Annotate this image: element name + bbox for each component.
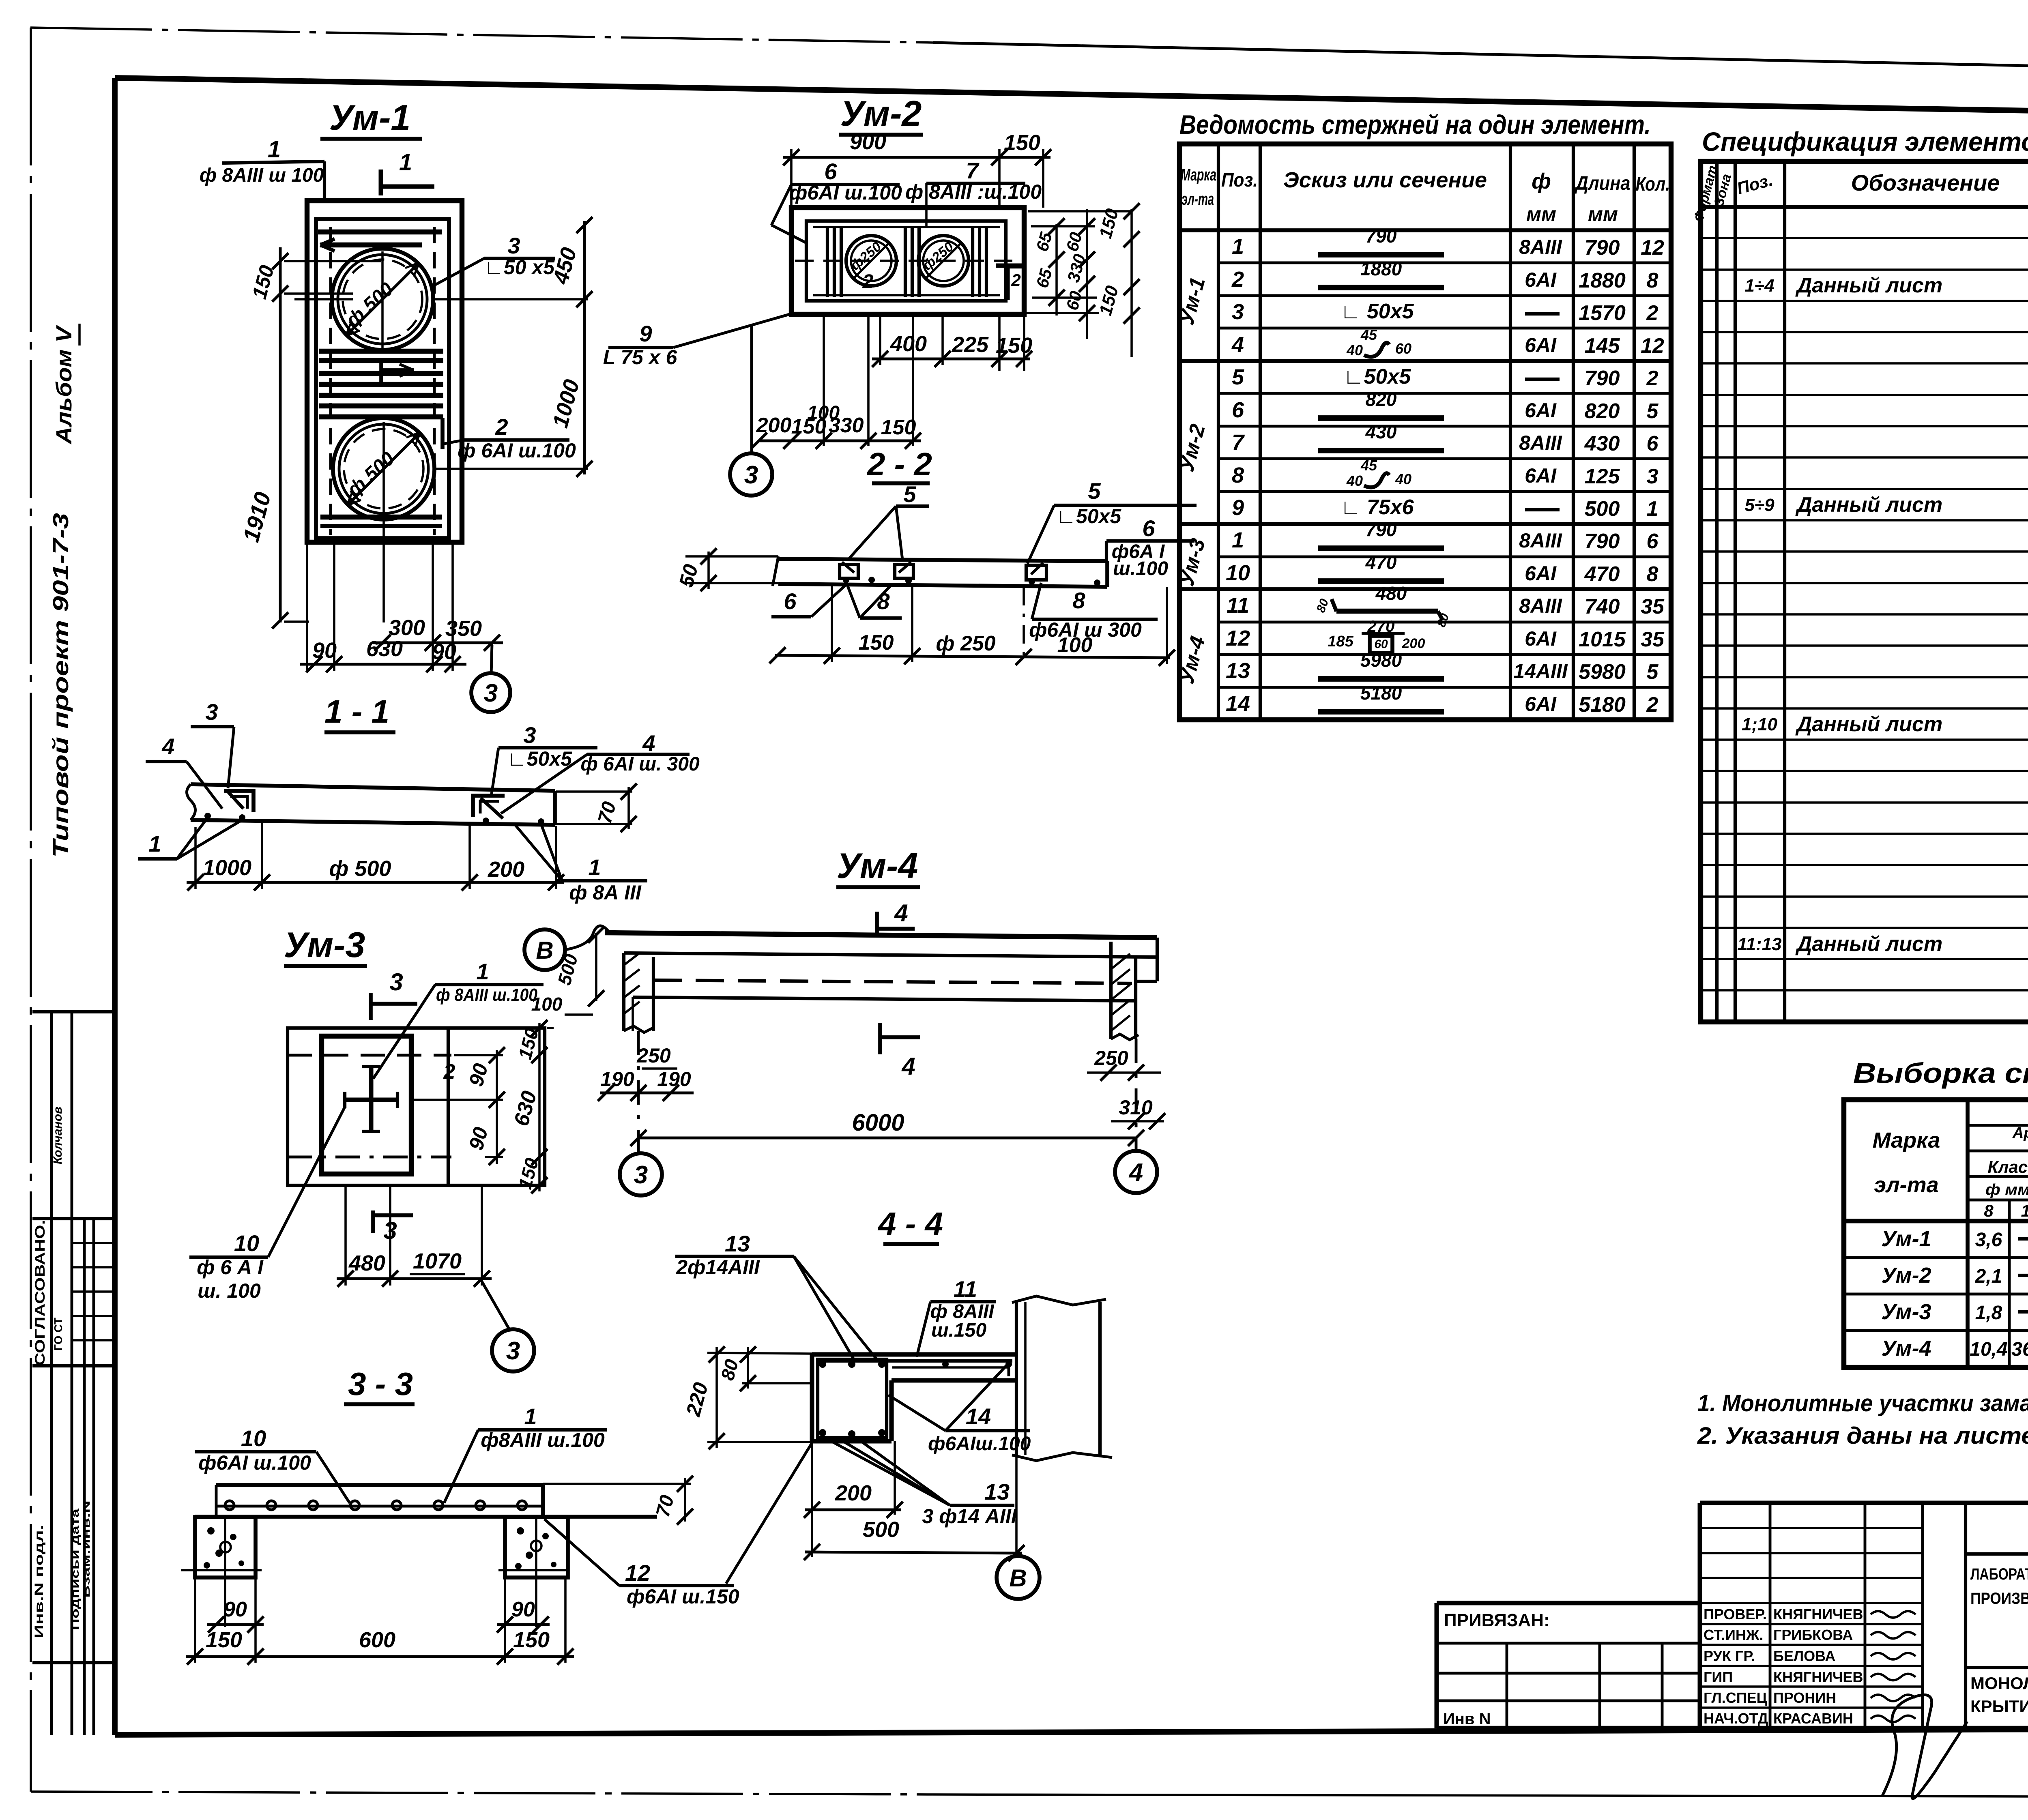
svg-text:12: 12 bbox=[1641, 236, 1664, 260]
svg-text:1;10: 1;10 bbox=[1742, 715, 1778, 734]
svg-text:900: 900 bbox=[850, 130, 886, 154]
svg-text:Данный лист: Данный лист bbox=[1795, 274, 1942, 297]
svg-text:Марка: Марка bbox=[1873, 1128, 1940, 1153]
svg-text:ГРИБКОВА: ГРИБКОВА bbox=[1773, 1627, 1853, 1643]
svg-text:1. Монолитные участки замаркир: 1. Монолитные участки замаркированы на л… bbox=[1697, 1390, 2028, 1417]
svg-text:90: 90 bbox=[511, 1598, 535, 1621]
svg-text:11: 11 bbox=[1227, 593, 1249, 618]
svg-text:820: 820 bbox=[1366, 389, 1397, 410]
label 13 2ф14АIII bbox=[675, 1231, 876, 1359]
svg-text:5980: 5980 bbox=[1579, 660, 1626, 684]
axis balloon 3 (below Ум-2) bbox=[730, 324, 772, 496]
svg-text:6: 6 bbox=[824, 159, 837, 184]
svg-text:45: 45 bbox=[1360, 457, 1377, 474]
svg-text:Обозначение: Обозначение bbox=[1851, 170, 2000, 195]
svg-text:2: 2 bbox=[1646, 301, 1658, 325]
leader from 12 label to stirrup corner bbox=[726, 1439, 814, 1584]
table Спецификация headers bbox=[1691, 164, 2028, 223]
svg-text:ф мм: ф мм bbox=[1985, 1181, 2028, 1198]
svg-text:Ум-2: Ум-2 bbox=[840, 93, 922, 133]
label 2 ф 6АI ш.100 bbox=[443, 414, 576, 462]
label 7 ф 8АIII ш.100 bbox=[905, 158, 1042, 227]
svg-text:100: 100 bbox=[531, 994, 563, 1015]
svg-text:ЛАБОРАТОРНАЯ ДЛЯ ОБЕЗЗАРАЖИВАН: ЛАБОРАТОРНАЯ ДЛЯ ОБЕЗЗАРАЖИВАНИЯ ПИТЬЕВЫ… bbox=[1970, 1565, 2028, 1583]
slab plan outline Ум-2 bbox=[791, 208, 1024, 314]
svg-text:8АIII: 8АIII bbox=[1519, 431, 1562, 454]
section 2-2 title bbox=[866, 446, 932, 483]
svg-text:L 75 х 6: L 75 х 6 bbox=[603, 346, 678, 369]
svg-text:8АIII: 8АIII bbox=[1519, 236, 1562, 258]
svg-text:Данный лист: Данный лист bbox=[1795, 932, 1942, 956]
circle center axis lines bbox=[294, 251, 588, 622]
label 12 ф6АI ш.150 bbox=[544, 1519, 739, 1608]
svg-text:190: 190 bbox=[657, 1068, 691, 1090]
svg-text:эл-та: эл-та bbox=[1874, 1173, 1938, 1197]
svg-text:1: 1 bbox=[1647, 497, 1658, 521]
svg-text:ф6АI ш.100: ф6АI ш.100 bbox=[198, 1451, 311, 1474]
svg-text:5: 5 bbox=[903, 481, 916, 507]
adjacent wall in 4-4 bbox=[1012, 1296, 1112, 1461]
svg-text:В: В bbox=[536, 937, 553, 964]
slab section 2-2 body bbox=[709, 556, 1107, 587]
dimension 400 225 150 (below Ум-2) bbox=[872, 314, 1032, 371]
svg-text:600: 600 bbox=[359, 1628, 395, 1652]
svg-text:2ф14АIII: 2ф14АIII bbox=[676, 1256, 760, 1279]
axis balloon 3 (below Ум-3) bbox=[482, 1281, 534, 1371]
svg-text:200: 200 bbox=[835, 1481, 872, 1505]
svg-text:630: 630 bbox=[366, 637, 403, 661]
svg-text:470: 470 bbox=[1584, 562, 1620, 586]
svg-text:ПРОНИН: ПРОНИН bbox=[1773, 1689, 1836, 1706]
dimension 150 (left top) bbox=[248, 247, 381, 302]
svg-text:3: 3 bbox=[1232, 300, 1244, 324]
angle clip right in 2-2 bbox=[1026, 563, 1100, 586]
svg-text:2: 2 bbox=[1231, 267, 1244, 292]
label 6 ф6АI ш.100 (far right) bbox=[1106, 515, 1194, 579]
view Ум-3 title bbox=[284, 925, 367, 966]
dimension 70 (right of 3-3) bbox=[543, 1476, 693, 1525]
svg-text:Инв.N подл.: Инв.N подл. bbox=[32, 1525, 46, 1638]
label 5 (left) bbox=[848, 481, 929, 560]
centerline crosses below walls bbox=[181, 1519, 568, 1627]
svg-text:5980: 5980 bbox=[1360, 650, 1402, 671]
svg-text:2. Указания даны на листе К: 2. Указания даны на листе КЖ-17. bbox=[1697, 1423, 2028, 1449]
svg-text:3 ф14 АIII: 3 ф14 АIII bbox=[922, 1505, 1017, 1528]
svg-text:100: 100 bbox=[1057, 633, 1093, 657]
label 1 ф 8АIII (below right) bbox=[515, 824, 647, 904]
svg-text:250: 250 bbox=[1094, 1047, 1128, 1069]
svg-text:100: 100 bbox=[807, 402, 840, 424]
svg-text:4: 4 bbox=[161, 734, 174, 759]
svg-text:13: 13 bbox=[984, 1479, 1010, 1505]
svg-text:9: 9 bbox=[1232, 496, 1244, 520]
label 4 (left) bbox=[146, 734, 222, 809]
svg-text:2: 2 bbox=[862, 271, 874, 292]
dimension 200 500 (below 4-4) bbox=[804, 1441, 1025, 1561]
svg-text:8АIII: 8АIII bbox=[1519, 595, 1562, 617]
svg-text:1: 1 bbox=[148, 831, 161, 856]
svg-text:ПРОИЗВОДИТЕЛЬНОСТЬЮ 12,5КГ ТОВ: ПРОИЗВОДИТЕЛЬНОСТЬЮ 12,5КГ ТОВАРНОГО ХЛО… bbox=[1970, 1590, 2028, 1608]
table Ведомость rows content bbox=[1226, 225, 1665, 717]
svg-text:310: 310 bbox=[1119, 1096, 1153, 1119]
svg-text:6АI: 6АI bbox=[1525, 268, 1557, 291]
svg-text:Колчанов: Колчанов bbox=[51, 1107, 64, 1164]
label 1 ф 8АIII ш 100 (left) bbox=[200, 136, 324, 198]
svg-text:КРЫТИЙ Ум-1 ÷ Ум4: КРЫТИЙ Ум-1 ÷ Ум4 bbox=[1970, 1696, 2028, 1716]
angle clip pair left in 2-2 bbox=[840, 562, 913, 584]
dimensions 150 630 150 (outer chain) bbox=[509, 1020, 554, 1193]
svg-text:2: 2 bbox=[1646, 693, 1658, 717]
hole circle ф250 (left) bbox=[846, 236, 896, 292]
label 8 ф6АI ш 300 (below right) bbox=[1029, 583, 1158, 641]
svg-text:740: 740 bbox=[1585, 595, 1620, 618]
svg-text:1: 1 bbox=[476, 959, 489, 984]
svg-text:СОГЛАСОВАНО.: СОГЛАСОВАНО. bbox=[32, 1220, 48, 1366]
svg-text:2 - 2: 2 - 2 bbox=[866, 446, 932, 482]
svg-text:480: 480 bbox=[348, 1251, 385, 1275]
svg-text:9: 9 bbox=[639, 321, 652, 346]
rebar top bars bbox=[318, 232, 442, 251]
svg-text:ф 6АI ш. 300: ф 6АI ш. 300 bbox=[580, 753, 700, 775]
view Ум-1 title bbox=[320, 97, 422, 139]
svg-text:6000: 6000 bbox=[852, 1110, 904, 1136]
svg-text:13: 13 bbox=[725, 1231, 750, 1256]
svg-text:Ум-1: Ум-1 bbox=[1881, 1227, 1931, 1251]
axis balloon 3 (below Ум-1) bbox=[471, 645, 510, 712]
svg-text:1,8: 1,8 bbox=[1975, 1302, 2002, 1324]
svg-text:8АIII: 8АIII bbox=[1519, 529, 1562, 552]
svg-text:8: 8 bbox=[1072, 588, 1085, 613]
label 1 ф8АIII ш.100 (Ум-3) bbox=[373, 959, 544, 1079]
svg-text:790: 790 bbox=[1585, 367, 1620, 390]
slab plan outline Ум-1 bbox=[307, 201, 462, 542]
svg-text:∟ 75х6: ∟ 75х6 bbox=[1340, 496, 1414, 519]
svg-text:40: 40 bbox=[1346, 342, 1363, 358]
svg-text:ф 6АI ш.100: ф 6АI ш.100 bbox=[458, 439, 576, 462]
rebar bottom bars bbox=[320, 517, 442, 526]
svg-text:125: 125 bbox=[1585, 465, 1620, 488]
angle clip left 1-1 bbox=[204, 791, 253, 821]
svg-text:эл-та: эл-та bbox=[1182, 189, 1214, 208]
svg-text:6АI: 6АI bbox=[1525, 334, 1557, 356]
svg-text:150: 150 bbox=[206, 1628, 242, 1652]
svg-text:1570: 1570 bbox=[1579, 301, 1626, 325]
svg-text:150: 150 bbox=[996, 333, 1032, 358]
svg-text:8: 8 bbox=[1984, 1201, 1994, 1220]
svg-text:3 - 3: 3 - 3 bbox=[348, 1366, 413, 1402]
svg-text:Класс АIII: Класс АIII bbox=[1987, 1157, 2028, 1176]
section cut mark 3 (top) bbox=[371, 968, 417, 1020]
svg-text:35: 35 bbox=[1641, 628, 1665, 651]
svg-text:1: 1 bbox=[588, 854, 601, 880]
view Ум-2 title bbox=[839, 93, 923, 135]
table Спецификация grid bbox=[1701, 161, 2028, 1022]
dimension 90 90 (below 3-3) bbox=[195, 1577, 565, 1663]
svg-text:6: 6 bbox=[1142, 515, 1155, 541]
label 1 ф8АIII ш.100 (3-3) bbox=[444, 1404, 607, 1503]
section cut mark 3 (bottom) bbox=[373, 1210, 413, 1244]
svg-text:5: 5 bbox=[1647, 660, 1659, 684]
axis balloon 4 (Ум-4 right) bbox=[1115, 1151, 1157, 1193]
svg-text:200: 200 bbox=[756, 414, 792, 437]
svg-text:45: 45 bbox=[1360, 326, 1377, 343]
dimension 900 150 (top) bbox=[783, 130, 1051, 208]
svg-text:ф6АI ш.150: ф6АI ш.150 bbox=[627, 1585, 739, 1608]
svg-text:60: 60 bbox=[1395, 340, 1411, 357]
svg-text:1: 1 bbox=[399, 149, 412, 176]
rebar vertical bars Ум-2 bbox=[827, 226, 986, 297]
table Выборка data rows bbox=[1881, 1227, 2028, 1361]
hole circle 1 ф500 bbox=[332, 249, 433, 350]
svg-text:470: 470 bbox=[1365, 552, 1397, 573]
svg-text:НАЧ.ОТД: НАЧ.ОТД bbox=[1704, 1710, 1768, 1727]
svg-text:12: 12 bbox=[625, 1560, 650, 1586]
svg-text:7: 7 bbox=[966, 158, 980, 183]
svg-text:ф: ф bbox=[1532, 169, 1551, 193]
section 1-1 title bbox=[324, 693, 395, 732]
svg-text:90: 90 bbox=[312, 638, 337, 663]
svg-text:7: 7 bbox=[1232, 430, 1245, 455]
svg-text:3: 3 bbox=[389, 968, 403, 996]
svg-text:Поз.: Поз. bbox=[1221, 170, 1258, 191]
svg-text:5180: 5180 bbox=[1360, 682, 1402, 704]
svg-text:3: 3 bbox=[484, 679, 498, 707]
svg-text:ПРИВЯЗАН:: ПРИВЯЗАН: bbox=[1444, 1610, 1550, 1630]
svg-text:6АI: 6АI bbox=[1525, 562, 1557, 585]
svg-text:8: 8 bbox=[1647, 562, 1658, 586]
section cut mark 1 (top) bbox=[381, 149, 434, 195]
svg-text:1: 1 bbox=[524, 1404, 537, 1429]
svg-text:225: 225 bbox=[952, 333, 989, 357]
svg-text:90: 90 bbox=[223, 1598, 247, 1621]
bottom dimensions 300 350 bbox=[307, 538, 503, 671]
svg-text:10,4: 10,4 bbox=[1970, 1339, 2007, 1360]
svg-text:Кол.: Кол. bbox=[1636, 174, 1670, 195]
hole circle 2 ф500 bbox=[333, 418, 434, 519]
svg-text:4: 4 bbox=[901, 1053, 915, 1080]
svg-text:Инв N: Инв N bbox=[1443, 1710, 1491, 1728]
label 9 L75x6 bbox=[603, 314, 791, 369]
svg-text:790: 790 bbox=[1585, 236, 1620, 260]
svg-text:60: 60 bbox=[1374, 637, 1388, 651]
dimensions 90 90 (inner chain) bbox=[414, 1047, 505, 1165]
svg-text:мм: мм bbox=[1588, 203, 1618, 225]
dimension 150 600 150 (bottom 3-3) bbox=[186, 1628, 574, 1665]
table Ведомость grid bbox=[1179, 144, 1671, 720]
beam cross-section 4-4 bbox=[812, 1354, 1016, 1441]
rebar mid bars bbox=[319, 351, 443, 417]
title block outline bbox=[1437, 1503, 2028, 1728]
dimension 1000 ф500 200 (below 1-1) bbox=[187, 820, 564, 891]
svg-text:4 - 4: 4 - 4 bbox=[877, 1206, 943, 1242]
svg-text:Типовой проект 901-7-3: Типовой проект 901-7-3 bbox=[49, 513, 73, 858]
svg-text:13: 13 bbox=[1226, 659, 1250, 683]
left axis dims 250 190 190 bbox=[598, 1031, 694, 1154]
svg-text:2: 2 bbox=[1011, 270, 1020, 290]
svg-text:В: В bbox=[1009, 1565, 1027, 1592]
svg-text:1015: 1015 bbox=[1579, 628, 1626, 651]
svg-text:Данный лист: Данный лист bbox=[1795, 493, 1942, 517]
plan outline Ум-3 bbox=[288, 1028, 545, 1185]
svg-text:Выборка стали на один элеме: Выборка стали на один элемент, кг bbox=[1853, 1057, 2028, 1089]
title block middle signature rows bbox=[1700, 1503, 1923, 1728]
label 13 3ф14АIII (bottom) bbox=[828, 1440, 1017, 1528]
svg-text:ф 8АIII ш.100: ф 8АIII ш.100 bbox=[436, 985, 537, 1005]
axis balloon В (left of Ум-4) bbox=[524, 926, 610, 970]
svg-text:35: 35 bbox=[1641, 595, 1665, 618]
svg-text:4: 4 bbox=[642, 730, 655, 756]
svg-text:Спецификация элементов монолит: Спецификация элементов монолитной констр… bbox=[1702, 127, 2028, 157]
svg-text:ГЛ.СПЕЦ: ГЛ.СПЕЦ bbox=[1704, 1689, 1768, 1706]
svg-text:Ум-3: Ум-3 bbox=[1881, 1300, 1931, 1324]
svg-text:36,0: 36,0 bbox=[2011, 1339, 2028, 1360]
svg-text:480: 480 bbox=[1375, 583, 1407, 604]
dimension 480 1070 (below Ум-3) bbox=[337, 1185, 492, 1287]
svg-text:4: 4 bbox=[894, 899, 908, 927]
sheet title МОНОЛИТНЫЕ УЧАСТКИ bbox=[1970, 1674, 2028, 1716]
svg-text:ш. 100: ш. 100 bbox=[198, 1279, 261, 1302]
title block object caption bbox=[1970, 1565, 2028, 1608]
table Ведомость marka labels bbox=[1175, 275, 1210, 687]
svg-text:10: 10 bbox=[241, 1425, 266, 1451]
svg-text:Ум-2: Ум-2 bbox=[1881, 1263, 1931, 1288]
svg-text:14АIII: 14АIII bbox=[1513, 660, 1568, 682]
section cut mark 4 (mid) bbox=[880, 1023, 920, 1080]
svg-text:ф 8АIII ш 100: ф 8АIII ш 100 bbox=[200, 165, 324, 186]
dimension 70 (right of 1-1) bbox=[556, 783, 637, 832]
svg-text:300: 300 bbox=[389, 616, 425, 640]
svg-text:3: 3 bbox=[744, 461, 758, 489]
svg-text:190: 190 bbox=[600, 1068, 634, 1090]
svg-text:1÷4: 1÷4 bbox=[1744, 276, 1774, 296]
svg-text:3: 3 bbox=[205, 699, 218, 725]
svg-text:8: 8 bbox=[1232, 463, 1244, 487]
dimension 100 500 (left) bbox=[531, 927, 604, 1015]
label 8 (below mid) bbox=[847, 584, 902, 618]
svg-text:150: 150 bbox=[1004, 131, 1040, 155]
svg-text:Ум-4: Ум-4 bbox=[837, 846, 918, 886]
svg-text:400: 400 bbox=[890, 332, 927, 356]
svg-text:250: 250 bbox=[636, 1044, 671, 1067]
right support wall Ум-4 bbox=[1111, 938, 1157, 1040]
svg-text:СТ.ИНЖ.: СТ.ИНЖ. bbox=[1704, 1627, 1763, 1643]
section 4-4 title bbox=[877, 1206, 943, 1244]
lifting cross symbol Ум-3 bbox=[345, 1067, 397, 1131]
svg-text:10: 10 bbox=[1226, 561, 1250, 585]
svg-text:14: 14 bbox=[966, 1404, 991, 1429]
svg-text:ПРОВЕР.: ПРОВЕР. bbox=[1704, 1606, 1767, 1623]
label 1 (below left) bbox=[138, 818, 242, 859]
svg-text:2: 2 bbox=[495, 414, 508, 440]
svg-text:КНЯГНИЧЕВ: КНЯГНИЧЕВ bbox=[1773, 1669, 1863, 1685]
svg-text:КНЯГНИЧЕВ: КНЯГНИЧЕВ bbox=[1773, 1606, 1863, 1623]
svg-text:14: 14 bbox=[1226, 691, 1250, 716]
svg-text:6: 6 bbox=[784, 588, 797, 614]
label 3 (above left) bbox=[191, 699, 234, 788]
svg-text:10: 10 bbox=[234, 1230, 259, 1256]
svg-text:145: 145 bbox=[1585, 334, 1620, 358]
svg-text:6АI: 6АI bbox=[1525, 464, 1557, 487]
svg-text:∟50х5: ∟50х5 bbox=[507, 747, 572, 770]
svg-text:1 - 1: 1 - 1 bbox=[324, 693, 389, 730]
svg-text:∟50 х5: ∟50 х5 bbox=[484, 256, 555, 279]
dimension 50 (left of 2-2) bbox=[675, 548, 717, 591]
svg-text:ГО СТ: ГО СТ bbox=[52, 1318, 64, 1351]
svg-text:3: 3 bbox=[523, 722, 536, 748]
svg-text:1: 1 bbox=[1232, 234, 1244, 259]
slab band 3-3 bbox=[195, 1485, 657, 1517]
svg-text:КРАСАВИН: КРАСАВИН bbox=[1773, 1710, 1853, 1727]
svg-text:5: 5 bbox=[1088, 478, 1101, 504]
svg-text:430: 430 bbox=[1365, 421, 1397, 442]
svg-text:185: 185 bbox=[1328, 633, 1353, 650]
svg-text:430: 430 bbox=[1584, 432, 1620, 455]
svg-text:1880: 1880 bbox=[1360, 258, 1402, 279]
svg-text:12: 12 bbox=[1226, 626, 1250, 650]
svg-text:1880: 1880 bbox=[1579, 269, 1626, 292]
label 10 ф6АI ш.100 (3-3) bbox=[195, 1425, 350, 1503]
label 6 (below left) bbox=[771, 583, 848, 617]
svg-text:3: 3 bbox=[507, 233, 520, 258]
svg-text:1070: 1070 bbox=[413, 1249, 462, 1273]
left support wall Ум-4 bbox=[624, 953, 653, 1032]
svg-text:РУК ГР.: РУК ГР. bbox=[1704, 1648, 1755, 1664]
svg-text:Ум-4: Ум-4 bbox=[1881, 1336, 1931, 1361]
dimension 450 / 1000 (right) bbox=[548, 217, 593, 477]
T element right of Ум-2 bbox=[996, 266, 1026, 300]
section 3-3 title bbox=[344, 1366, 415, 1404]
axis balloon 3 (Ум-4 left) bbox=[620, 1153, 662, 1195]
svg-text:ш.100: ш.100 bbox=[1113, 558, 1168, 579]
label 3 L50x5 (above right) bbox=[492, 722, 597, 794]
bar dots in 3-3 bbox=[225, 1501, 526, 1510]
svg-text:40: 40 bbox=[1395, 471, 1411, 487]
svg-text:790: 790 bbox=[1366, 225, 1397, 247]
svg-text:40: 40 bbox=[1346, 472, 1363, 489]
svg-text:ф8АIII ш.100: ф8АIII ш.100 bbox=[481, 1429, 605, 1451]
svg-text:ш.150: ш.150 bbox=[931, 1320, 986, 1341]
svg-text:∟50х5: ∟50х5 bbox=[1056, 505, 1121, 528]
svg-text:∟ 50х5: ∟ 50х5 bbox=[1340, 300, 1414, 323]
svg-text:ф6АI ш.100: ф6АI ш.100 bbox=[789, 181, 902, 204]
dimension 220 80 (left of 4-4) bbox=[681, 1346, 812, 1449]
svg-text:6АI: 6АI bbox=[1525, 693, 1557, 715]
svg-text:ф6АIш.100: ф6АIш.100 bbox=[928, 1433, 1031, 1455]
hole circle ф250 (right) bbox=[918, 236, 969, 286]
svg-text:2: 2 bbox=[1646, 367, 1658, 390]
svg-text:150: 150 bbox=[859, 631, 894, 655]
svg-text:6: 6 bbox=[1232, 398, 1244, 422]
slab band 1-1 bbox=[187, 784, 555, 825]
right axis dims 250 310 bbox=[1087, 1039, 1165, 1151]
svg-text:1: 1 bbox=[268, 136, 281, 163]
svg-text:1: 1 bbox=[1232, 528, 1244, 552]
svg-text:Альбом V: Альбом V bbox=[52, 325, 76, 445]
svg-text:5: 5 bbox=[1232, 365, 1244, 389]
svg-text:500: 500 bbox=[1585, 497, 1620, 521]
svg-text:6АI: 6АI bbox=[1525, 399, 1557, 422]
label 11 ф8АIII ш.150 bbox=[917, 1276, 996, 1357]
svg-text:6: 6 bbox=[1647, 432, 1659, 455]
svg-text:11:13: 11:13 bbox=[1737, 934, 1781, 954]
svg-text:МОНОЛИТНЫЕ УЧАСТКИ ПЕРЕ-: МОНОЛИТНЫЕ УЧАСТКИ ПЕРЕ- bbox=[1970, 1674, 2028, 1693]
left wall block 3-3 bbox=[195, 1517, 256, 1577]
svg-text:ф 6 А I: ф 6 А I bbox=[197, 1256, 264, 1279]
svg-text:5: 5 bbox=[1647, 399, 1659, 423]
label 14 ф6АI ш.100 bbox=[888, 1362, 1031, 1455]
dimension 150 ф250 100 (below 2-2) bbox=[769, 586, 1175, 666]
svg-text:14: 14 bbox=[2021, 1201, 2028, 1220]
